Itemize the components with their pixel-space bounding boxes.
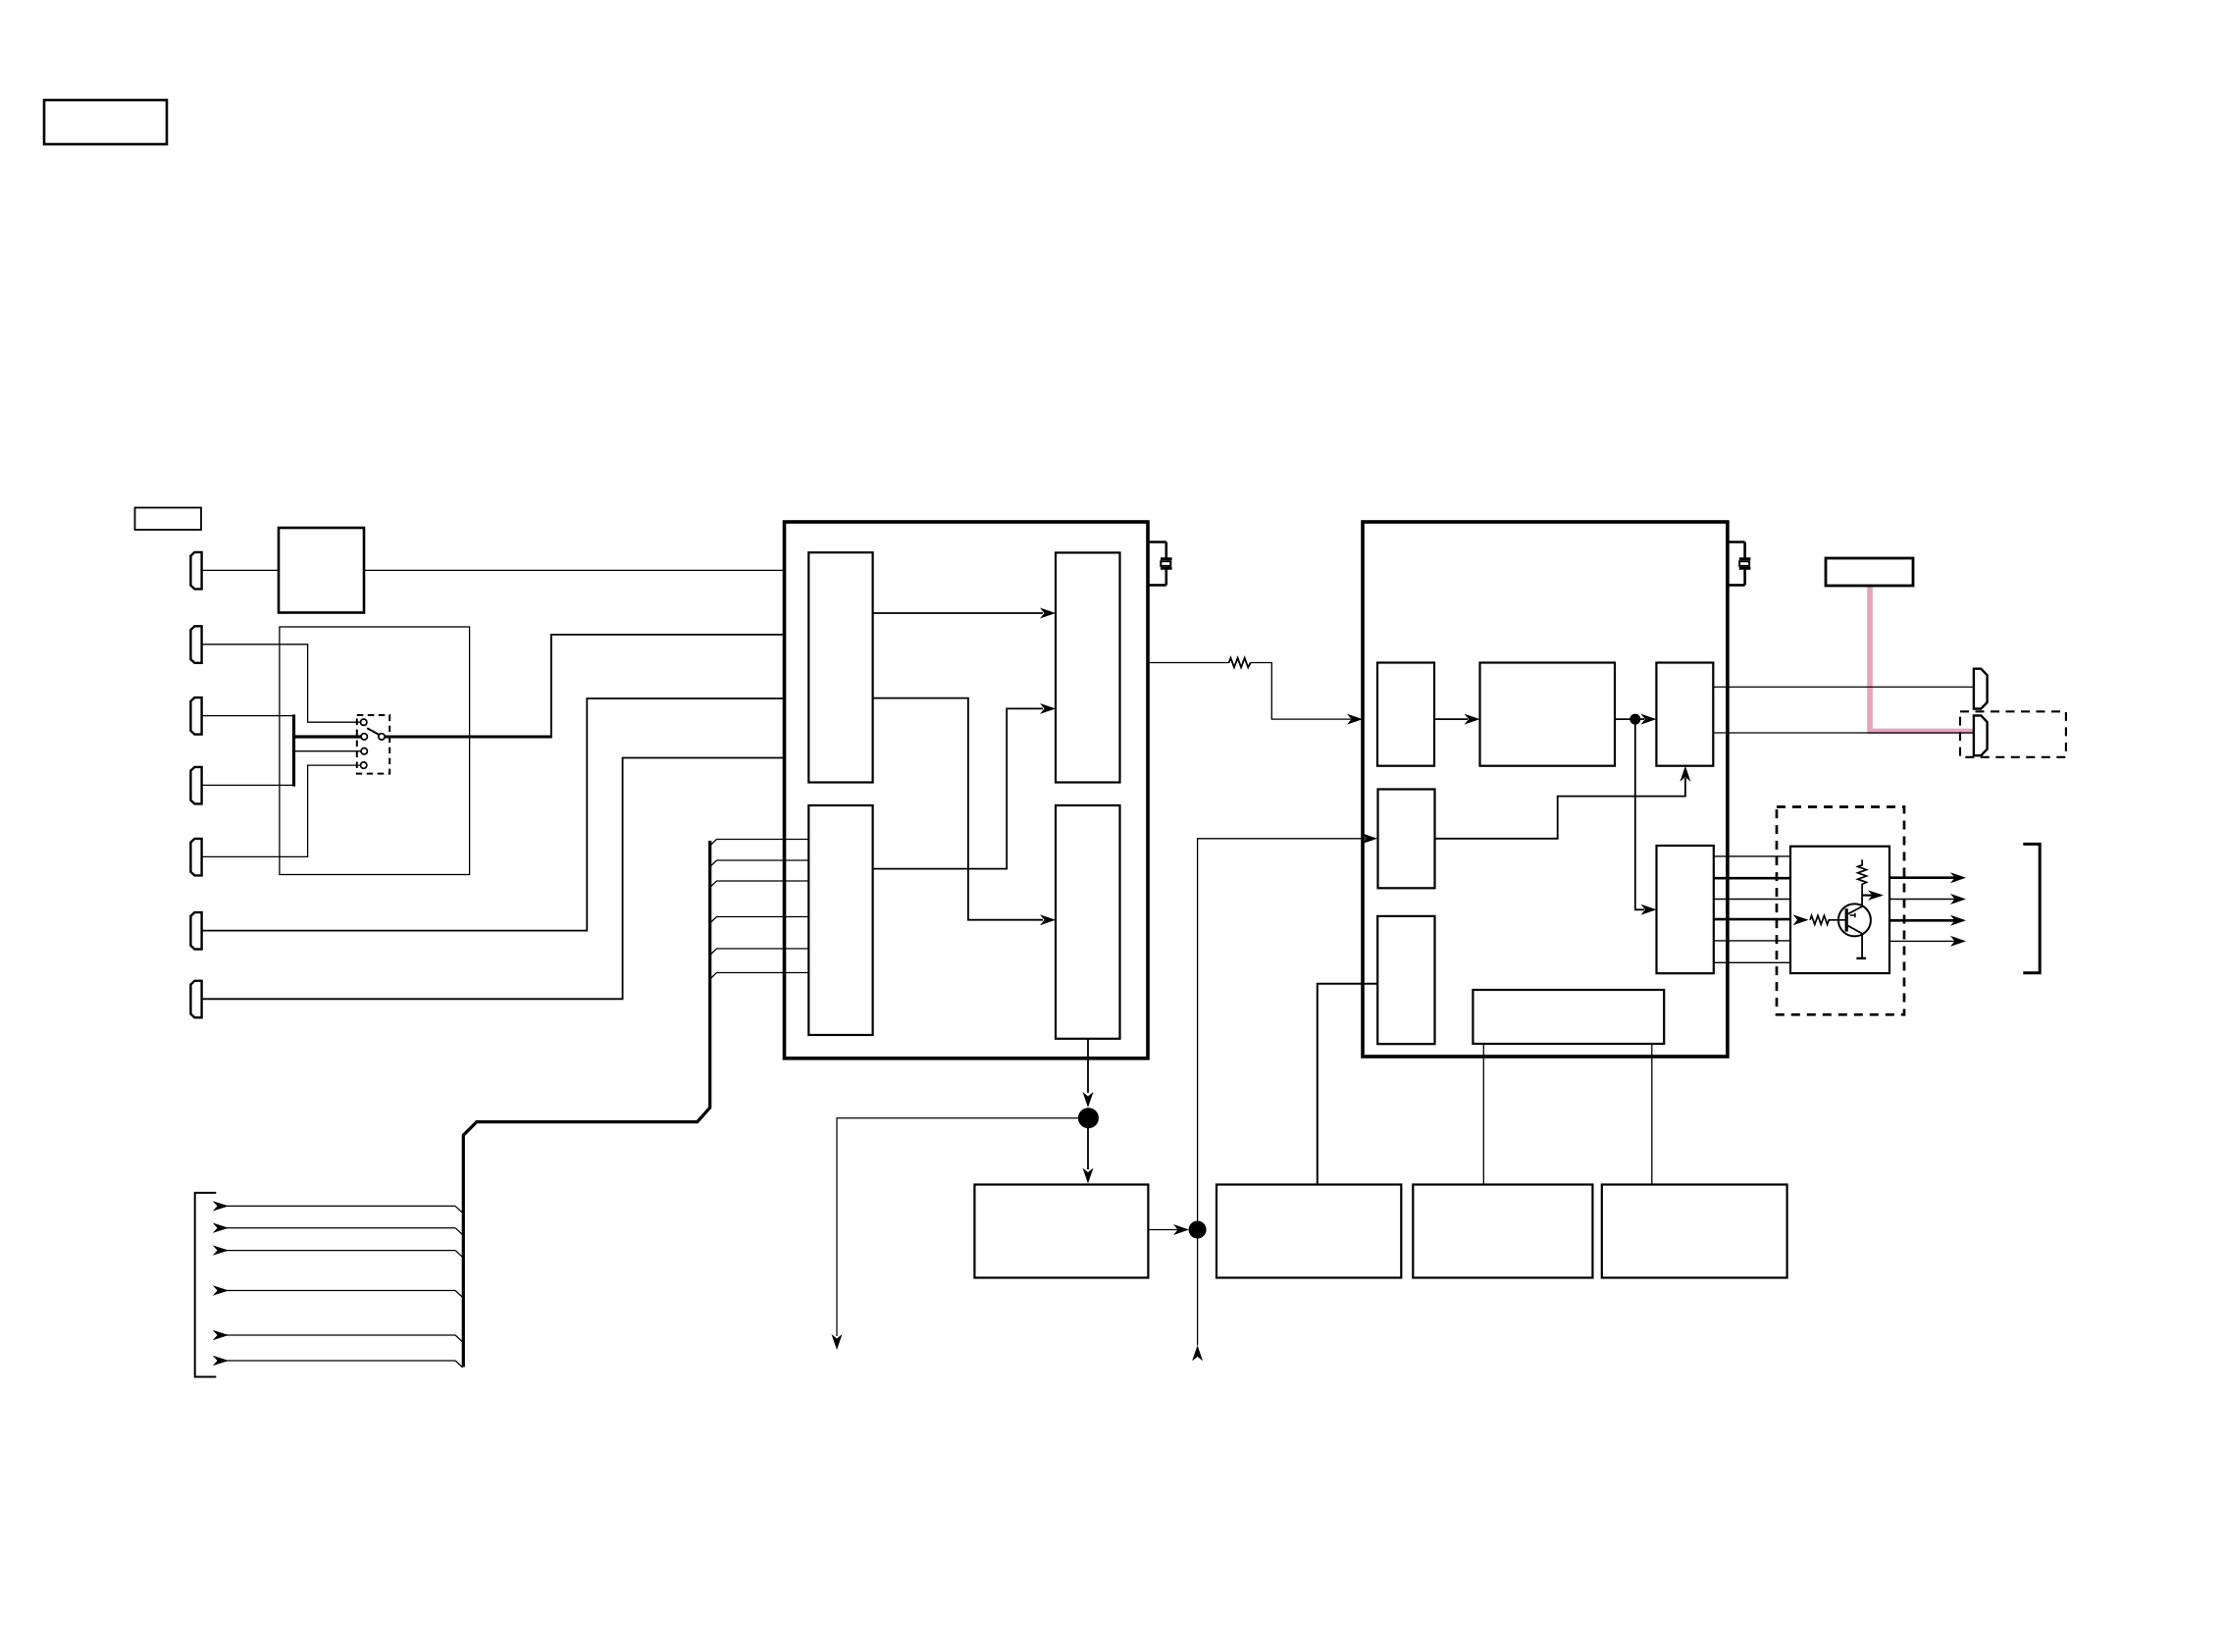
arrow J1 to box H	[1087, 1128, 1089, 1169]
arrow IC2 A to B	[1434, 718, 1468, 720]
arrow IC1 A to C	[873, 612, 1043, 614]
crystal X2 stubs	[1727, 542, 1745, 586]
crystal X2 plates	[1739, 559, 1751, 569]
key line 2	[218, 1227, 455, 1229]
wire IC2 E to driver line 4 (thick)	[1714, 918, 1790, 921]
bus branch 4	[710, 917, 809, 924]
bus branch 1 to IC1 block B	[710, 840, 809, 847]
wire IC1 A to block D	[873, 698, 1043, 920]
wire P6 to IC1	[202, 698, 785, 931]
IC2 block G	[1473, 990, 1664, 1044]
key line 5	[218, 1334, 455, 1336]
wire IC2 G to box K	[1651, 1044, 1653, 1185]
IC2 block A	[1377, 663, 1434, 766]
wire J2 down with up arrow	[1197, 1238, 1199, 1345]
switch contact c1	[361, 719, 367, 725]
switch S1 dashed outline	[357, 715, 389, 774]
ground	[1856, 957, 1866, 959]
IC1 block D (lower-right)	[1056, 805, 1120, 1039]
wire P1 to B1	[202, 569, 279, 571]
crystal X1 stubs	[1148, 542, 1166, 586]
pull-up resistor R3	[1858, 859, 1867, 895]
base resistor R2	[1810, 915, 1845, 924]
title block rectangle	[44, 100, 167, 144]
bus branch 3	[710, 881, 809, 888]
switch contact c3	[361, 749, 367, 754]
T-bar vertical (thick)	[292, 714, 295, 786]
data bus (thick)	[463, 841, 709, 1368]
connector P2	[190, 626, 201, 663]
wire IC2 E to driver line 2 (thick)	[1714, 877, 1790, 880]
driver output arrow 2	[1889, 899, 1956, 901]
driver output arrow 4	[1889, 940, 1956, 942]
wire P3 to T-bar	[202, 715, 294, 717]
arrow box H to junction J2	[1148, 1229, 1178, 1231]
key line 4	[218, 1290, 455, 1292]
driver unit dashed outline	[1777, 807, 1904, 1015]
connector P3	[190, 697, 201, 735]
key input bracket	[195, 1193, 217, 1377]
bus branch 5	[710, 949, 809, 955]
block B1 (reset block)	[279, 528, 364, 613]
top reference rectangle	[1826, 558, 1913, 586]
bus branch 2	[710, 860, 809, 867]
IC2 block F	[1377, 916, 1434, 1044]
transistor Q1 collector output arrow	[1862, 894, 1874, 896]
wire IC1 B to block C	[873, 708, 1043, 868]
wire P2 to switch contact c1	[202, 645, 361, 722]
switch common wire (thick)	[385, 736, 551, 739]
wire IC2 D output to IC2 C (arrow up)	[1435, 778, 1685, 839]
T-bar to switch contact c2 (thick)	[292, 735, 361, 738]
junction J1	[1078, 1108, 1099, 1128]
wire P7 to IC1	[202, 758, 785, 1000]
box H	[974, 1185, 1148, 1278]
crystal X1 body	[1161, 561, 1170, 566]
connector P6	[190, 912, 201, 950]
wire P4 to T-bar	[202, 784, 294, 786]
resistor R1	[1229, 658, 1251, 668]
switch common wire riser to IC1	[551, 635, 785, 739]
wire IC2 E to driver line 6	[1714, 961, 1790, 963]
connector P4	[190, 767, 201, 804]
IC1 block A (upper-left)	[808, 552, 872, 782]
IC1 block B (lower-left)	[808, 805, 872, 1035]
switch contact c2	[361, 734, 367, 740]
junction J3	[1630, 714, 1640, 725]
IC1 block C (upper-right)	[1056, 552, 1120, 782]
wire B1 to IC1	[364, 569, 785, 571]
driver output arrow 3 (thick)	[1889, 919, 1956, 922]
output bracket	[2023, 844, 2040, 972]
wire IC1 block D down to junction J1	[1087, 1039, 1089, 1093]
box K	[1602, 1185, 1787, 1278]
switch lever	[367, 728, 379, 735]
bus branch 6	[710, 973, 809, 980]
IC2 block B	[1480, 663, 1616, 766]
wire IC2 G to box J	[1482, 1044, 1484, 1185]
wire IC2 E to driver line 1	[1714, 855, 1790, 857]
key line 6	[218, 1360, 455, 1362]
wire IC2 C to P9	[1713, 732, 1974, 734]
wire T-bar to switch contact c3	[294, 750, 361, 752]
label box near connector P1	[135, 508, 202, 531]
switch enclosure box	[280, 627, 470, 875]
connector P9	[1974, 715, 1988, 755]
IC2 block C	[1656, 663, 1713, 766]
transistor Q1	[1838, 903, 1871, 936]
junction J2	[1189, 1221, 1207, 1239]
wire riser junction J2 to IC2 D	[1198, 839, 1366, 1221]
connector P5	[190, 839, 201, 876]
connector P1	[190, 552, 201, 590]
IC2 block E	[1657, 846, 1714, 973]
box J	[1413, 1185, 1592, 1278]
IC2 block D	[1378, 790, 1435, 889]
wire IC2 E to driver line 5	[1714, 940, 1790, 942]
wire IC2 E to driver line 3	[1714, 899, 1790, 901]
wire IC2 B to junction J3	[1615, 718, 1635, 720]
wire IC2 F to box I	[1318, 984, 1377, 1184]
transistor Q1 base input arrow	[1793, 914, 1809, 925]
driver output arrow 1 (thick)	[1889, 876, 1956, 879]
switch common contact c5	[379, 734, 385, 740]
key line 1	[218, 1205, 455, 1207]
IC1 outline	[785, 522, 1149, 1058]
wire IC2 C to P8	[1713, 686, 1974, 688]
switch contact c4	[361, 762, 367, 768]
wire J3 down to IC2 E	[1635, 719, 1644, 909]
connector P7	[190, 981, 201, 1018]
IC2 outline	[1363, 522, 1728, 1057]
wire J1 to left down arrow	[837, 1118, 1078, 1336]
dashed outline around P9	[1960, 711, 2066, 757]
crystal X1 plates	[1161, 559, 1172, 569]
connector P8	[1974, 669, 1988, 709]
crystal X2 body	[1739, 561, 1749, 566]
wire P5 to switch contact c4	[202, 765, 361, 856]
driver box	[1790, 847, 1889, 973]
box I	[1216, 1185, 1401, 1278]
wire IC1 to IC2 with resistor R1	[1148, 663, 1352, 720]
key line 3	[218, 1250, 455, 1252]
arrow J3 to IC2 C	[1635, 718, 1644, 720]
pink highlight wire	[1870, 586, 1975, 731]
